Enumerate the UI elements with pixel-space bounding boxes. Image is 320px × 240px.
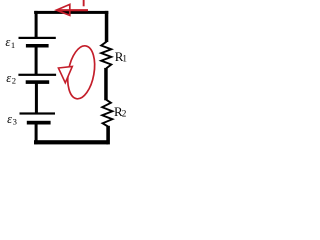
wire right vertical bottom xyxy=(106,126,110,145)
svg-text:ε: ε xyxy=(5,35,10,49)
current arrow tail (red) xyxy=(58,9,89,11)
resistor R2 zigzag xyxy=(102,100,112,127)
wire left vertical segment 1 xyxy=(35,11,38,38)
svg-text:2: 2 xyxy=(12,76,16,86)
battery E2 long plate xyxy=(18,74,56,76)
battery E2 short plate xyxy=(26,80,50,84)
current arrow head (red open triangle) xyxy=(56,4,70,15)
battery E3 long plate xyxy=(20,112,56,114)
wire left vertical segment 3 xyxy=(35,83,38,113)
resistor R1 zigzag xyxy=(101,42,111,69)
svg-text:1: 1 xyxy=(122,53,127,63)
svg-text:1: 1 xyxy=(11,40,15,50)
wire top horizontal xyxy=(34,11,108,14)
wire right vertical middle xyxy=(104,68,108,100)
label I (red) xyxy=(83,0,85,6)
wire left vertical segment 2 xyxy=(35,47,38,76)
svg-text:3: 3 xyxy=(13,117,17,127)
loop arrowhead (red open triangle, white filled) xyxy=(58,66,72,82)
battery E3 short plate xyxy=(27,121,51,125)
loop direction ellipse (red) xyxy=(64,44,99,101)
wire right vertical top xyxy=(105,11,109,42)
battery E1 short plate xyxy=(26,44,49,48)
svg-text:ε: ε xyxy=(7,112,12,126)
wire left vertical segment 4 xyxy=(35,124,38,145)
svg-text:2: 2 xyxy=(122,109,127,119)
svg-text:ε: ε xyxy=(6,71,11,85)
wire bottom horizontal xyxy=(34,140,108,144)
battery E1 long plate xyxy=(19,37,56,39)
